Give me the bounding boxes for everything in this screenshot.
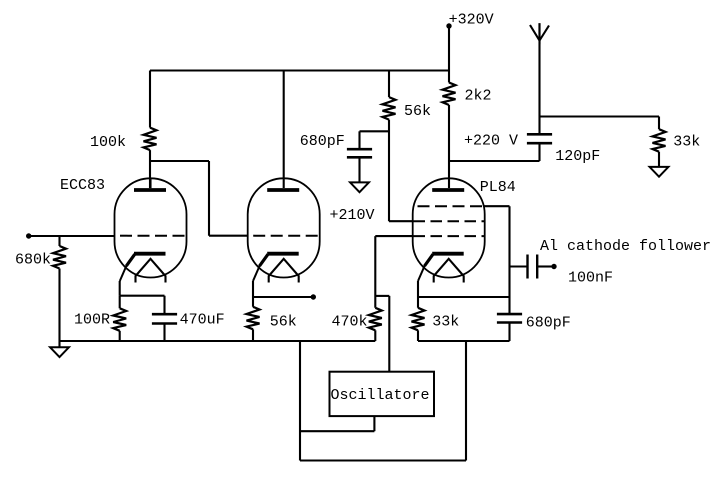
grid V1 dashed — [120, 235, 187, 237]
capacitor 680pF screen decoupling — [347, 149, 372, 157]
svg-text:Al cathode follower: Al cathode follower — [540, 238, 711, 255]
cathode bar V1 — [120, 254, 166, 281]
wire V1 cathode junction — [120, 295, 165, 297]
grid g1 V3 dashed — [414, 235, 485, 237]
svg-text:100R: 100R — [74, 311, 110, 328]
resistor 33k antenna — [653, 129, 666, 152]
resistor 100R — [113, 308, 126, 331]
wire oscillator bottom horizontal — [300, 430, 374, 432]
wire g1 node down — [374, 236, 376, 308]
wire V3 cathode down — [417, 281, 419, 297]
antenna — [530, 23, 549, 116]
resistor 100k — [144, 128, 157, 151]
capacitor 100nF coupling — [528, 255, 538, 279]
wire V1 plate to V2 grid horizontal — [150, 160, 209, 162]
svg-text:Oscillatore: Oscillatore — [331, 387, 430, 404]
label Al cathode follower — [540, 238, 711, 255]
wire g1 entry — [375, 235, 413, 237]
wire 120pF bottom lead — [538, 143, 540, 161]
svg-text:120pF: 120pF — [555, 148, 600, 165]
label 33k antenna — [673, 134, 700, 151]
heater V2 — [269, 259, 299, 283]
wire 2k2 to PL84 plate — [448, 105, 450, 188]
label 120pF — [555, 148, 600, 165]
wire g2 entry — [389, 220, 414, 222]
svg-text:680pF: 680pF — [526, 315, 571, 332]
wire 100k to V1 plate — [149, 150, 151, 188]
wire 56k cathode top lead — [252, 297, 254, 307]
resistor 56k cathode — [247, 307, 260, 330]
wire coupling cap to output dot — [538, 265, 552, 267]
oscillator box — [330, 372, 435, 416]
svg-text:ECC83: ECC83 — [60, 177, 105, 194]
wire 470k to bus — [374, 330, 376, 341]
svg-text:33k: 33k — [432, 313, 459, 330]
wire oscillator bottom lead — [373, 416, 375, 431]
svg-text:56k: 56k — [270, 313, 297, 330]
wire bus to 100k — [149, 71, 151, 128]
resistor 56k screen — [383, 97, 396, 120]
plate bar V2 — [267, 188, 299, 192]
svg-text:100nF: 100nF — [568, 270, 613, 287]
wire ground drop right — [465, 341, 467, 461]
cathode bar V2 — [253, 254, 299, 281]
wire 56k down to screen grid — [388, 120, 390, 222]
wire 33k top lead — [658, 117, 660, 130]
wire 100R to bus — [119, 331, 121, 341]
resistor 470k — [369, 308, 382, 331]
wire 680pF to ground — [358, 157, 360, 182]
svg-text:470uF: 470uF — [180, 312, 225, 329]
node +320V label — [449, 12, 494, 29]
wire V2 cathode to test point — [253, 296, 311, 298]
svg-text:56k: 56k — [404, 103, 431, 120]
svg-text:100k: 100k — [90, 134, 126, 151]
wire 120pF top lead — [538, 117, 540, 135]
label PL84 — [480, 179, 516, 196]
svg-text:33k: 33k — [673, 134, 700, 151]
node input dot — [26, 233, 31, 238]
wire bus to V2 plate — [283, 71, 285, 189]
ground input — [50, 347, 69, 357]
wire V2 grid entry — [209, 235, 248, 237]
label +220 V — [464, 133, 518, 150]
node test point dot — [311, 294, 316, 299]
wire B+ vertical from +320V dot to 2k2 — [448, 26, 450, 83]
node output dot — [551, 264, 556, 269]
resistor 33k cathode — [412, 308, 425, 331]
svg-text:+220 V: +220 V — [464, 133, 518, 150]
wire 470uF top lead — [163, 296, 165, 315]
label +210V — [330, 207, 375, 224]
label 470uF — [180, 312, 225, 329]
capacitor 470uF — [152, 314, 177, 323]
svg-text:+210V: +210V — [330, 207, 375, 224]
wire 33k cathode bottom — [417, 330, 419, 341]
ground under 33k — [650, 167, 669, 177]
wire to coupling cap — [510, 265, 527, 267]
wire ground drop left — [299, 341, 301, 461]
svg-text:+320V: +320V — [449, 12, 494, 29]
label ECC83 — [60, 177, 105, 194]
svg-text:PL84: PL84 — [480, 179, 516, 196]
wire V2 cathode down — [252, 281, 254, 297]
wire 33k to ground — [658, 152, 660, 167]
wire plate node to 120pF — [449, 160, 540, 162]
resistor 680k — [53, 246, 66, 269]
plate bar V1 — [134, 188, 166, 192]
tube V1 ECC83 envelope — [115, 178, 187, 277]
wire 56k node to 680pF — [360, 130, 390, 132]
wire g3 to cathode net — [484, 206, 510, 314]
tube V3 PL84 envelope — [413, 178, 485, 277]
label 33k cathode — [432, 313, 459, 330]
wire top HT bus — [150, 69, 449, 71]
plate bar V3 — [432, 188, 464, 192]
wire ground bus — [60, 340, 376, 342]
resistor 2k2 — [443, 83, 456, 106]
svg-text:680pF: 680pF — [300, 133, 345, 150]
heater V3 — [434, 259, 464, 283]
capacitor 120pF — [527, 134, 552, 143]
junction dot +320V supply — [446, 23, 451, 28]
wire oscillator top lead — [388, 296, 390, 372]
label 680k — [15, 251, 51, 268]
ground under 680pF — [350, 182, 369, 192]
label 680pF screen — [300, 133, 345, 150]
wire 680pF top lead — [358, 131, 360, 149]
wire 100R top lead — [119, 296, 121, 309]
label 2k2 — [465, 88, 492, 105]
wire input to V1 grid — [29, 235, 115, 237]
label 470k — [332, 313, 368, 330]
wire cathode bottom rail — [418, 340, 510, 342]
wire 56k cathode to bus — [252, 329, 254, 341]
plate lead V1 — [149, 178, 151, 188]
wire antenna node to 33k — [540, 115, 660, 117]
label 56k cathode — [270, 313, 297, 330]
label 100k — [90, 134, 126, 151]
wire 470uF to bus — [163, 324, 165, 342]
tube V2 ECC83 envelope — [248, 178, 320, 277]
svg-text:2k2: 2k2 — [465, 88, 492, 105]
grid g3 V3 dashed — [418, 205, 485, 207]
wire 680pF cathode bottom — [508, 323, 510, 342]
wire bus to 56k — [388, 71, 390, 98]
wire V3 cathode junction — [418, 296, 510, 298]
svg-text:680k: 680k — [15, 251, 51, 268]
wire V1 cathode down — [119, 281, 121, 296]
heater V1 — [136, 259, 166, 283]
wire 33k cathode top lead — [417, 297, 419, 308]
wire V2 grid vertical — [208, 161, 210, 236]
label Oscillatore — [331, 387, 430, 404]
label 680pF cathode — [526, 315, 571, 332]
label 56k screen — [404, 103, 431, 120]
wire 680k to ground — [58, 269, 60, 348]
cathode bar V3 — [418, 254, 464, 281]
grid g2 V3 dashed — [414, 220, 485, 222]
label 100R — [74, 311, 110, 328]
svg-text:470k: 470k — [332, 313, 368, 330]
wire bottom return rail — [300, 459, 466, 461]
wire input to 680k — [58, 236, 60, 246]
label 100nF — [568, 270, 613, 287]
capacitor 680pF cathode — [497, 314, 522, 322]
wire g1 branch to oscillator — [375, 295, 389, 297]
grid V2 dashed — [253, 235, 320, 237]
